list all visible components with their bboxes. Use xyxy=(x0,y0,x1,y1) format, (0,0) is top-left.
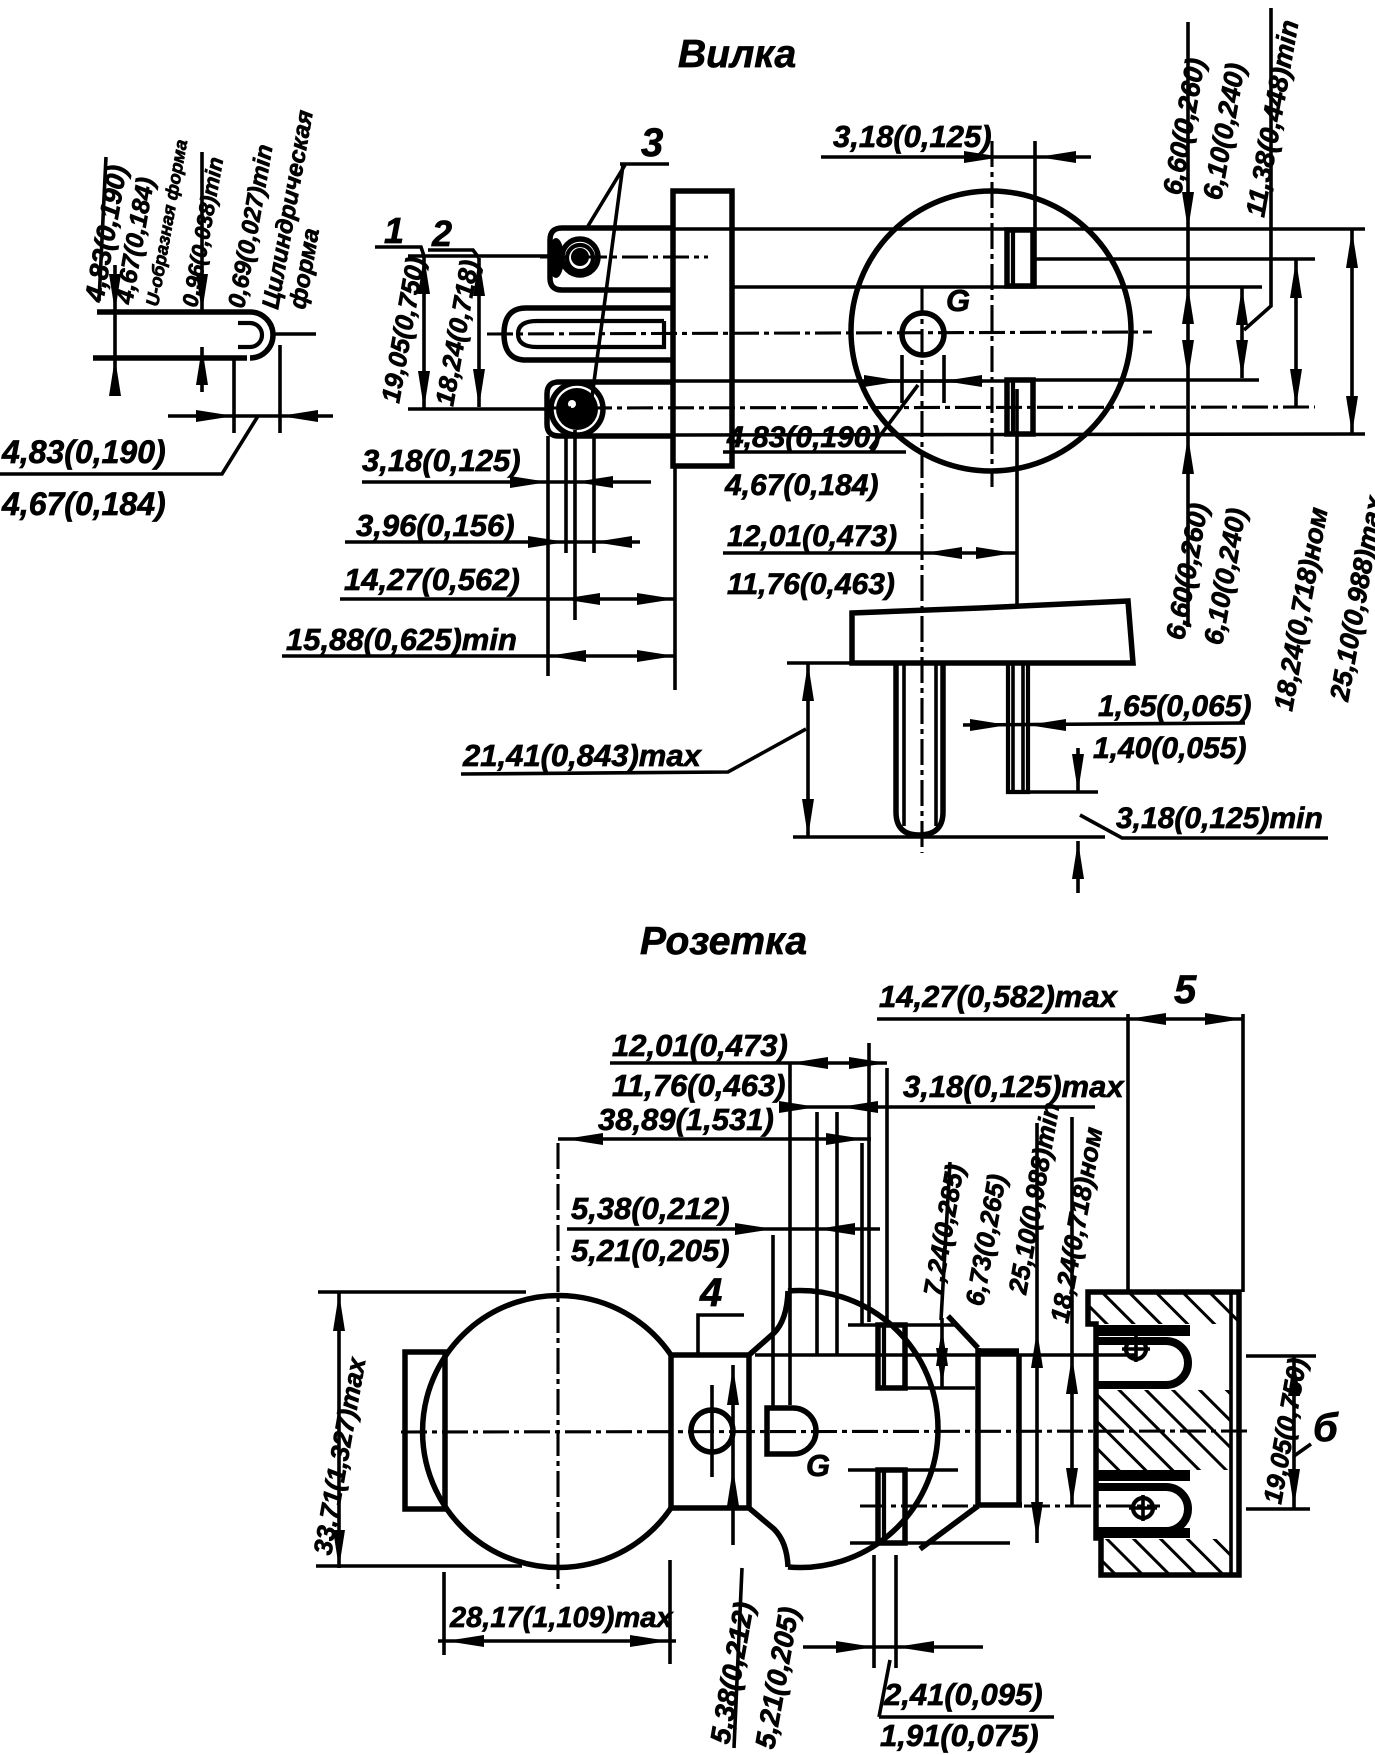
svg-text:14,27(0,562): 14,27(0,562) xyxy=(344,562,520,597)
label 4 bracket leader xyxy=(698,1315,744,1355)
top pin hole inner scribble xyxy=(571,248,589,266)
svg-text:14,27(0,582)max: 14,27(0,582)max xyxy=(879,979,1119,1014)
extension vertical x862 xyxy=(860,1143,864,1325)
bottom pin hole dark blob xyxy=(556,388,598,430)
face vertical centerline xyxy=(990,141,993,487)
svg-text:4,83(0,190): 4,83(0,190) xyxy=(1,434,166,470)
extension bottom xyxy=(316,1564,522,1568)
svg-text:11,76(0,463): 11,76(0,463) xyxy=(612,1068,786,1103)
extension lines below bottom pin xyxy=(546,436,550,676)
svg-text:б: б xyxy=(1313,1406,1339,1450)
dim 21,41 vertical xyxy=(806,663,810,837)
vertical dim 5,38/5,21 hole xyxy=(731,1365,735,1545)
right flat verticals xyxy=(975,1348,981,1505)
slot right edge extension vertical xyxy=(1033,141,1037,286)
bottom pin outline xyxy=(547,382,673,436)
middle pin centerline long xyxy=(487,332,1152,334)
svg-text:4: 4 xyxy=(699,1271,722,1315)
bottom hatched band xyxy=(1101,1539,1231,1575)
top pin hole ring xyxy=(562,239,598,275)
top contact centerline solid xyxy=(755,1353,1135,1357)
dim line 2,41 xyxy=(803,1645,983,1649)
svg-text:28,17(1,109)max: 28,17(1,109)max xyxy=(449,1602,674,1634)
dim line 19,05 vertical xyxy=(1292,1356,1296,1509)
leader to text 4,83/4,67 xyxy=(0,416,258,474)
flat pin bottom extension xyxy=(1008,790,1098,794)
flat pin projection vertical xyxy=(1015,389,1019,604)
G hole dim line xyxy=(873,379,983,383)
leader arrow from 0,96/0,69 labels xyxy=(200,152,204,312)
extension line bottom centerline xyxy=(408,407,547,411)
pin tip outline top edge xyxy=(97,309,250,315)
left tab rectangle xyxy=(405,1352,445,1509)
dim 28,17 extensions xyxy=(442,1572,446,1655)
dim line 18,24 vertical xyxy=(477,258,481,407)
middle pin inner U xyxy=(518,321,664,347)
long line y381 xyxy=(673,379,1007,383)
svg-text:15,88(0,625)min: 15,88(0,625)min xyxy=(286,622,517,657)
dim line 3,96 xyxy=(345,540,640,544)
dim 11,38 vertical x1242 xyxy=(1240,287,1244,378)
right dim vertical x1188 xyxy=(1186,22,1190,627)
top slot xyxy=(1007,230,1033,286)
neck left vertical xyxy=(668,1355,674,1508)
rotated fraction bar xyxy=(941,1162,950,1320)
dim 18,24 vertical x1296 xyxy=(1294,260,1298,407)
dim line 33,71 vertical xyxy=(337,1293,341,1568)
G hole diameter extension lines xyxy=(900,355,904,403)
lower contact rivet xyxy=(1133,1498,1153,1518)
top pin left dark crescent xyxy=(548,238,564,278)
fraction/dim line 12,01 xyxy=(610,1061,887,1065)
svg-text:38,89(1,531): 38,89(1,531) xyxy=(598,1102,774,1137)
underline and leader xyxy=(461,729,806,774)
upper cavity dark band xyxy=(1096,1325,1190,1336)
dim 19,05 extensions xyxy=(1246,1354,1316,1358)
extension verticals from top dims xyxy=(788,1063,792,1405)
top pin centerline xyxy=(540,255,708,258)
label 3 leader to bottom hole xyxy=(592,165,623,397)
plug body xyxy=(673,191,732,466)
label 2 underline xyxy=(428,250,479,258)
leader/underline xyxy=(1080,815,1328,838)
right flat top chamfer xyxy=(948,1316,978,1348)
lower dark band xyxy=(1096,1528,1190,1538)
pin tip inner U bottom line xyxy=(238,345,250,349)
svg-text:5,38(0,212): 5,38(0,212) xyxy=(571,1191,730,1226)
dim line 14,27max xyxy=(877,1017,1243,1021)
svg-text:1: 1 xyxy=(384,210,404,251)
svg-text:11,76(0,463): 11,76(0,463) xyxy=(727,568,895,601)
leader 11,38 xyxy=(1244,8,1271,330)
leader bracket xyxy=(879,1660,890,1717)
svg-text:G: G xyxy=(806,1448,830,1483)
plug body bottom view xyxy=(852,601,1133,663)
fraction/dim line 5,38 xyxy=(567,1227,880,1231)
G hole vertical centerline xyxy=(710,1385,714,1477)
leader for б xyxy=(1294,1444,1311,1456)
section outline xyxy=(1088,1292,1239,1575)
dim 18,24ном vertical xyxy=(1070,1117,1074,1506)
G hole vertical centerline long xyxy=(920,288,923,853)
fraction bar xyxy=(879,1715,1054,1719)
G hole xyxy=(902,313,944,355)
fraction bar xyxy=(723,450,906,454)
svg-text:1,65(0,065): 1,65(0,065) xyxy=(1098,690,1251,723)
G hole socket xyxy=(691,1410,733,1452)
svg-text:5: 5 xyxy=(1174,968,1197,1012)
svg-text:3,96(0,156): 3,96(0,156) xyxy=(356,508,515,543)
extension line below tip left xyxy=(232,360,236,433)
lower cavity dark band xyxy=(1096,1470,1190,1481)
leader to 4,83/4,67 fraction xyxy=(870,385,918,449)
section extension verticals xyxy=(1126,1014,1130,1292)
dim 7,24 vertical arrows xyxy=(936,1328,948,1366)
section inner right edge xyxy=(1229,1292,1233,1575)
pin tip outline bottom edge xyxy=(93,355,247,361)
right lobe arc xyxy=(788,1290,938,1567)
svg-text:2: 2 xyxy=(431,213,452,254)
dim line 14,27 xyxy=(340,597,675,601)
bottom contact centerline xyxy=(860,1504,1160,1507)
svg-text:3,18(0,125): 3,18(0,125) xyxy=(833,119,992,154)
upper contact clip xyxy=(1098,1341,1188,1385)
neck top edge xyxy=(671,1352,749,1358)
neck bottom edge xyxy=(671,1505,749,1511)
right flat bottom edge xyxy=(978,1502,1022,1508)
line y259 xyxy=(1033,257,1315,261)
pin tip inner U top line xyxy=(238,321,250,325)
rotated fraction bar bottom xyxy=(734,1568,742,1748)
label 1 underline xyxy=(375,247,424,256)
pin tip U rounded end xyxy=(250,312,273,358)
extension line below tip right xyxy=(278,345,282,433)
dim line 3,18max xyxy=(806,1105,1095,1109)
svg-text:4,83(0,190): 4,83(0,190) xyxy=(726,421,880,454)
svg-text:4,67(0,184): 4,67(0,184) xyxy=(1,486,166,522)
svg-text:3: 3 xyxy=(641,121,663,165)
round pin inner lines xyxy=(902,663,906,826)
socket horizontal centerline xyxy=(401,1431,1252,1432)
plug face circle xyxy=(851,191,1131,471)
slot top extension lines xyxy=(848,1323,878,1327)
right flat bottom chamfer xyxy=(920,1506,978,1549)
top hatched band xyxy=(1090,1294,1237,1324)
svg-text:2,41(0,095): 2,41(0,095) xyxy=(883,1677,1043,1712)
dim line 28,17 xyxy=(438,1639,676,1643)
middle pin outline xyxy=(504,308,673,360)
stadium slot xyxy=(767,1408,816,1454)
svg-text:12,01(0,473): 12,01(0,473) xyxy=(612,1028,788,1063)
extension line top centerline xyxy=(408,254,553,258)
svg-text:Розетка: Розетка xyxy=(640,920,807,963)
svg-text:3,18(0,125)max: 3,18(0,125)max xyxy=(903,1069,1125,1104)
dim line 15,88 xyxy=(282,654,675,658)
dim 3,18min arrows xyxy=(1076,748,1080,792)
min length line xyxy=(793,835,1105,839)
label 3 leader to top hole xyxy=(588,165,625,226)
bottom slot extensions xyxy=(848,1468,878,1472)
right flat top edge xyxy=(978,1348,1019,1354)
left lobe arc xyxy=(423,1296,671,1568)
svg-text:3,18(0,125)min: 3,18(0,125)min xyxy=(1116,802,1323,835)
dim 25,10min vertical xyxy=(1035,1123,1039,1543)
socket vertical centerline xyxy=(556,1143,559,1592)
svg-text:1,40(0,055): 1,40(0,055) xyxy=(1093,732,1246,765)
bottom slot socket xyxy=(878,1470,905,1543)
middle hatched band xyxy=(1096,1390,1231,1470)
round pin bottom view xyxy=(896,663,943,835)
long line y287 xyxy=(732,285,1262,289)
neck right vertical xyxy=(746,1355,752,1508)
dim line 3,18 xyxy=(362,480,651,484)
dim line 1,65/1,40 xyxy=(963,723,1245,725)
neck chamfer diagonals xyxy=(749,1291,788,1355)
svg-text:21,41(0,843)max: 21,41(0,843)max xyxy=(462,738,703,773)
lower contact clip xyxy=(1098,1487,1188,1531)
label 3 underline xyxy=(620,162,669,166)
top slot socket xyxy=(878,1325,905,1388)
dim 25,10 vertical x1352 xyxy=(1350,230,1354,434)
long line y229 top xyxy=(673,227,1365,231)
long line y435 xyxy=(673,434,1365,435)
dim line 38,89 xyxy=(558,1137,871,1141)
dim line vertical 4,83/4,67 with arrows xyxy=(113,265,117,395)
centerline stub right of tip xyxy=(272,332,316,336)
bottom pin centerline xyxy=(545,407,1315,408)
svg-text:4,67(0,184): 4,67(0,184) xyxy=(724,469,878,502)
svg-text:5,21(0,205): 5,21(0,205) xyxy=(571,1233,730,1268)
fraction bar rotated xyxy=(99,157,106,301)
dim line horizontal with inward arrows xyxy=(168,414,333,418)
svg-text:1,91(0,075): 1,91(0,075) xyxy=(880,1718,1039,1753)
svg-text:12,01(0,473): 12,01(0,473) xyxy=(727,520,897,553)
upper contact rivet xyxy=(1126,1339,1146,1359)
dim line 3,18 top xyxy=(821,155,1091,159)
bottom slot xyxy=(1007,380,1033,434)
extension top xyxy=(318,1290,526,1294)
dim line 19,05 vertical xyxy=(422,256,426,409)
body bottom extension left xyxy=(787,661,852,665)
top pin outline xyxy=(550,228,673,290)
svg-text:3,18(0,125): 3,18(0,125) xyxy=(362,443,521,478)
dim 2,41/1,91 extensions xyxy=(872,1555,876,1668)
fraction bar / dim line 12,01 xyxy=(723,551,1016,555)
svg-text:Вилка: Вилка xyxy=(678,33,796,76)
flat pin bottom view xyxy=(1008,663,1028,792)
pin tip inner U arc xyxy=(250,323,262,347)
